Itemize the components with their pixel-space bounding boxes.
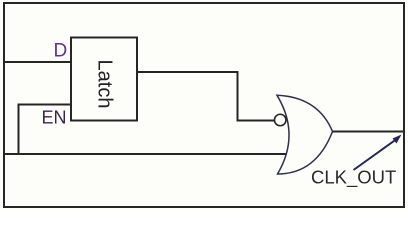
svg-text:EN: EN bbox=[42, 107, 67, 127]
svg-text:CLK_OUT: CLK_OUT bbox=[311, 167, 396, 189]
svg-text:Latch: Latch bbox=[94, 60, 116, 109]
svg-text:D: D bbox=[54, 40, 68, 61]
